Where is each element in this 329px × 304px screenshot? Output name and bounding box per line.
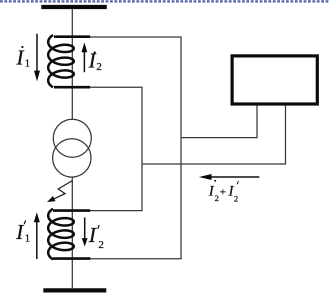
svg-text:1: 1 [25,58,31,70]
svg-text:I: I [15,220,24,244]
svg-text:+: + [220,186,226,198]
svg-text:2: 2 [96,61,102,73]
svg-text:I: I [16,46,25,70]
svg-text:2: 2 [234,194,238,204]
svg-text:2: 2 [215,193,219,203]
svg-text:2: 2 [98,239,104,251]
svg-text:1: 1 [25,233,31,245]
svg-text:I: I [88,223,97,247]
